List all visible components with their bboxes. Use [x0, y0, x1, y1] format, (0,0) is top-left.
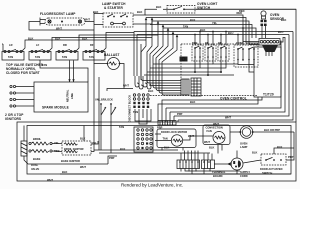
svg-text:FLUORESCENT LAMP: FLUORESCENT LAMP — [40, 12, 76, 16]
wire lock drops — [101, 116, 125, 153]
wire plug ground — [236, 170, 238, 174]
svg-text:BLK OR PRP: BLK OR PRP — [264, 128, 280, 132]
svg-text:CONVECTION: CONVECTION — [206, 126, 223, 130]
relay BROIL — [218, 41, 229, 61]
svg-text:BLK: BLK — [277, 145, 282, 149]
connector to control pins — [259, 39, 280, 57]
convection fan — [183, 125, 230, 145]
svg-text:BLU: BLU — [228, 31, 233, 35]
lamp switch & starter — [93, 2, 142, 27]
svg-text:Rendered by LeadVenture, Inc.: Rendered by LeadVenture, Inc. — [121, 183, 183, 188]
svg-text:SWITCH: SWITCH — [262, 171, 272, 175]
relay pair right — [234, 41, 258, 67]
svg-text:BLU: BLU — [278, 30, 283, 34]
lower section frame — [17, 122, 296, 181]
svg-text:BALLAST: BALLAST — [104, 53, 120, 57]
svg-text:TAN: TAN — [62, 55, 67, 59]
svg-text:DOOR ACTUATED: DOOR ACTUATED — [260, 167, 283, 171]
svg-text:BLK: BLK — [209, 146, 214, 150]
wire lower bus — [47, 146, 291, 182]
svg-text:CLOSED FOR START: CLOSED FOR START — [6, 71, 40, 75]
svg-text:RED: RED — [237, 11, 243, 15]
top ignitors — [5, 85, 34, 121]
lower connector block — [134, 127, 153, 152]
svg-text:BROIL IGNITOR: BROIL IGNITOR — [64, 147, 84, 151]
svg-text:OVEN: OVEN — [240, 141, 247, 145]
wire motor fan drops — [162, 145, 237, 159]
svg-text:CONV: CONV — [236, 41, 244, 45]
svg-text:BLK: BLK — [148, 89, 153, 93]
svg-text:RF: RF — [90, 43, 94, 47]
svg-text:LINE: LINE — [70, 93, 74, 99]
svg-text:TAN: TAN — [35, 55, 40, 59]
note top valve switches — [6, 63, 43, 75]
svg-text:VALVE: VALVE — [31, 167, 40, 171]
svg-text:WHT: WHT — [80, 165, 86, 169]
svg-text:BAKE: BAKE — [33, 157, 41, 161]
svg-text:PRP: PRP — [109, 156, 115, 160]
top valve switch RR — [55, 37, 78, 61]
wire top bundle — [134, 11, 293, 45]
console frame right edge — [196, 9, 296, 122]
wire relay drops — [194, 27, 254, 76]
svg-text:WHT: WHT — [47, 178, 53, 182]
wire wht jumper — [107, 84, 133, 92]
svg-text:T1/T20: T1/T20 — [263, 93, 274, 97]
svg-text:NEUTRAL: NEUTRAL — [65, 89, 69, 102]
wire ballast leads — [94, 30, 108, 64]
svg-text:TERMINAL: TERMINAL — [212, 170, 226, 174]
svg-text:BLK: BLK — [137, 10, 142, 14]
svg-text:TAN: TAN — [8, 55, 13, 59]
connector strip on frame — [158, 121, 176, 126]
svg-text:BROIL: BROIL — [33, 137, 41, 141]
svg-text:BOARD: BOARD — [213, 174, 223, 178]
oven sensor — [239, 9, 285, 38]
svg-text:& STARTER: & STARTER — [104, 6, 123, 10]
svg-text:TAN: TAN — [183, 25, 188, 29]
oven light switch — [156, 2, 296, 13]
svg-text:SUPPLY: SUPPLY — [240, 170, 250, 174]
center harness verticals — [141, 78, 181, 95]
wire switch risers — [2, 33, 158, 83]
svg-text:PRP: PRP — [177, 112, 183, 116]
svg-text:BLK: BLK — [62, 170, 67, 174]
door actuated switch — [243, 132, 294, 175]
wire harness hooks — [135, 76, 153, 93]
wire starter bottom — [94, 13, 103, 15]
fluorescent lamp — [40, 12, 90, 30]
wire bake area — [24, 141, 117, 164]
oven control module — [150, 44, 258, 101]
svg-text:LAMP: LAMP — [240, 145, 248, 149]
ballast — [104, 53, 120, 70]
svg-text:BLK: BLK — [190, 18, 195, 22]
door lock motor — [155, 126, 196, 148]
svg-text:WHT: WHT — [204, 140, 210, 144]
bake ignitor — [61, 126, 115, 170]
wire bracket loops — [135, 109, 151, 124]
svg-text:TAN: TAN — [133, 110, 138, 114]
svg-text:RR: RR — [63, 43, 67, 47]
svg-text:BLK: BLK — [281, 18, 286, 22]
top valve switch LR — [2, 43, 24, 60]
svg-text:LF: LF — [36, 43, 40, 47]
wire right nested bundle — [158, 32, 293, 126]
terminal boards — [177, 151, 250, 179]
relay DLB — [192, 41, 203, 61]
supply cord plug — [214, 158, 250, 178]
svg-text:UNL.BR/LOCK: UNL.BR/LOCK — [95, 98, 113, 102]
lock unlock switches — [95, 98, 116, 117]
svg-text:BLK: BLK — [156, 5, 161, 9]
svg-text:LR: LR — [9, 43, 13, 47]
svg-text:YEL: YEL — [54, 141, 59, 145]
relay BAKE — [205, 41, 216, 61]
wire lamp loop — [29, 22, 94, 31]
disconnect block — [128, 94, 150, 122]
svg-text:BLK: BLK — [190, 100, 195, 104]
svg-text:BLK: BLK — [120, 147, 125, 151]
svg-text:BLK: BLK — [80, 137, 85, 141]
svg-text:WHT: WHT — [225, 116, 231, 120]
top valve switch LF — [28, 37, 51, 61]
wire valve feed — [23, 126, 25, 142]
svg-text:WHT: WHT — [84, 18, 90, 22]
svg-text:YEL: YEL — [212, 21, 217, 25]
svg-text:YEL: YEL — [92, 141, 97, 145]
svg-text:BAKE IGNITOR: BAKE IGNITOR — [61, 159, 80, 163]
wire relay bus extensions — [144, 64, 213, 75]
svg-text:WHT: WHT — [123, 84, 129, 88]
svg-text:DUAL: DUAL — [31, 163, 39, 167]
T1/T20 board — [254, 47, 281, 97]
svg-text:DISCONNECT BLOCK: DISCONNECT BLOCK — [128, 95, 132, 122]
svg-text:BLK: BLK — [252, 151, 257, 155]
svg-text:TAN: TAN — [163, 137, 168, 141]
svg-text:TAN: TAN — [89, 55, 94, 59]
spark module — [34, 61, 88, 113]
svg-text:SPARK MODULE: SPARK MODULE — [42, 106, 69, 110]
broil bake dual valve — [21, 137, 60, 171]
svg-text:IGNITORS: IGNITORS — [5, 117, 21, 121]
connector plug center — [181, 78, 201, 96]
svg-text:DOOR LOCK MOTOR: DOOR LOCK MOTOR — [161, 130, 187, 134]
top valve switch RF — [82, 37, 105, 61]
svg-text:FAN: FAN — [207, 129, 212, 133]
svg-text:PRP: PRP — [288, 155, 294, 159]
wire left risers to bundle — [134, 18, 178, 94]
oven lamp — [230, 126, 294, 149]
svg-text:CORD: CORD — [240, 174, 248, 178]
